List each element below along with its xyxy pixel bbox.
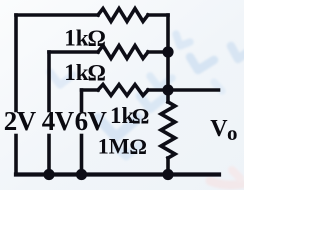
wire 4V source vertical upper: [47, 52, 51, 111]
wire R2 right lead to node B: [148, 50, 168, 54]
svg-text:1k: 1k: [64, 25, 89, 50]
wire bottom rail: [16, 172, 219, 176]
wire 4V source vertical lower: [47, 136, 51, 175]
wire R1 right lead to node column: [148, 13, 168, 17]
resistor R3 1kΩ (third horizontal): [98, 85, 148, 96]
wire output to Vo terminal: [168, 88, 219, 92]
svg-text:Ω: Ω: [129, 134, 147, 159]
svg-text:4V: 4V: [42, 106, 75, 136]
junction 6V at bottom rail: [76, 169, 87, 180]
wire 6V source vertical upper: [80, 90, 84, 111]
junction R4 at bottom rail: [162, 169, 173, 180]
wire R3 right lead to node C: [148, 88, 168, 92]
svg-text:2V: 2V: [4, 106, 37, 136]
wire 6V source vertical lower: [80, 136, 84, 175]
wire 4V lead to R2: [49, 50, 98, 54]
svg-text:o: o: [227, 121, 238, 145]
resistor R2 1kΩ (second horizontal): [98, 46, 148, 59]
svg-text:6V: 6V: [75, 106, 108, 136]
wire top rail from 2V source to R1: [16, 13, 98, 17]
svg-text:1k: 1k: [64, 60, 89, 85]
junction node B (R1/R2 to column): [162, 46, 173, 57]
svg-text:V: V: [210, 116, 228, 142]
wire node column vertical: [166, 15, 170, 102]
resistor R1 1kΩ (top horizontal): [98, 9, 148, 22]
resistor R4 1MΩ (vertical): [161, 102, 175, 158]
svg-text:1M: 1M: [98, 133, 130, 158]
svg-text:Ω: Ω: [132, 103, 150, 128]
wire R4 bottom lead: [166, 158, 170, 175]
svg-text:Ω: Ω: [88, 26, 106, 51]
wire 6V lead to R3: [82, 88, 99, 92]
wire 2V source vertical lower: [14, 136, 18, 175]
junction node C (R3/output/R4): [162, 84, 173, 95]
junction 4V at bottom rail: [43, 169, 54, 180]
svg-text:Ω: Ω: [88, 61, 106, 86]
wire 2V source vertical upper: [14, 15, 18, 111]
